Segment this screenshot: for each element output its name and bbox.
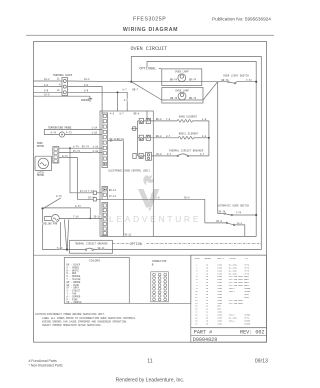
svg-text:7-74: 7-74 (246, 79, 252, 82)
relay bus vertical (137, 121, 139, 156)
svg-text:4-7: 4-7 (200, 153, 205, 156)
node broil tap (208, 137, 210, 139)
svg-text:BROIL ELEMENT: BROIL ELEMENT (179, 132, 199, 135)
svg-text:OVEN LIGHT SWITCH: OVEN LIGHT SWITCH (223, 74, 249, 77)
fan branch drop (89, 208, 91, 219)
svg-text:4-6: 4-6 (110, 112, 115, 115)
cooling fan leads left (44, 217, 51, 221)
svg-text:4-6: 4-6 (124, 99, 129, 102)
element return bus (208, 121, 210, 156)
relay feed drop (146, 111, 148, 118)
wire switch drop to door switch (217, 82, 219, 214)
automatic door switch 1 (218, 213, 224, 215)
fan return pair (64, 220, 66, 250)
connector cell divider right (129, 255, 191, 303)
svg-text:BR-8: BR-8 (134, 112, 140, 115)
door lock connector strip (53, 147, 59, 163)
svg-text:30-14: 30-14 (98, 247, 106, 250)
svg-text:8-74: 8-74 (73, 146, 79, 149)
svg-text:09/13: 09/13 (255, 359, 268, 365)
wire N block to control (68, 87, 103, 113)
oven lamp 1 box (162, 69, 202, 86)
svg-text:COLOR: COLOR (230, 257, 237, 260)
connector strip P2 body (102, 187, 108, 200)
svg-text:WIRING DIAGRAM: WIRING DIAGRAM (123, 27, 178, 33)
svg-text:9-74: 9-74 (51, 132, 57, 135)
door motor M1 box (35, 156, 52, 170)
node breaker junction (66, 249, 68, 251)
node switch to bus (255, 81, 257, 83)
svg-text:5-BK: 5-BK (57, 247, 63, 250)
node L1 junction (130, 81, 132, 83)
inline connector on latch wire 2 (93, 198, 96, 201)
svg-text:GY-74: GY-74 (80, 190, 88, 193)
svg-text:1-14: 1-14 (92, 127, 98, 130)
wire run table header (195, 257, 249, 260)
svg-text:1-8: 1-8 (202, 118, 207, 121)
svg-text:OVEN CIRCUIT: OVEN CIRCUIT (131, 46, 168, 52)
internal drop wire (122, 141, 124, 237)
svg-text:COOLING FAN: COOLING FAN (42, 222, 58, 225)
svg-text:OVEN LAMP: OVEN LAMP (175, 89, 189, 92)
svg-text:7-14: 7-14 (73, 216, 79, 219)
svg-text:9-74: 9-74 (56, 195, 62, 198)
svg-text:10-2: 10-2 (84, 78, 90, 81)
svg-text:1-18: 1-18 (92, 132, 98, 135)
svg-text:GY-14: GY-14 (109, 195, 117, 198)
svg-text:30-8: 30-8 (156, 153, 162, 156)
svg-text:7-74: 7-74 (236, 212, 242, 215)
svg-text:8-7: 8-7 (167, 153, 172, 156)
bottom return wire (153, 235, 256, 237)
control output wire to door switch (108, 199, 205, 223)
bottom breaker wire (43, 249, 86, 251)
svg-text:ELECTRONIC OVEN CONTROL (EOC): ELECTRONIC OVEN CONTROL (EOC) (109, 170, 151, 173)
thermal circuit breaker CB1 (177, 155, 179, 157)
svg-text:BU-18: BU-18 (117, 138, 125, 141)
wire table box (191, 255, 267, 328)
svg-text:BR-7: BR-7 (133, 89, 139, 92)
node fan branch (89, 218, 91, 220)
colors legend entries (67, 264, 83, 305)
inline connector on latch wire 1 (93, 191, 96, 194)
svg-text:GY-8: GY-8 (154, 197, 160, 200)
svg-text:COLORS: COLORS (89, 258, 100, 262)
svg-text:OPTIONAL: OPTIONAL (139, 68, 156, 72)
connector strip pins (103, 114, 106, 235)
door lock wire 2 (59, 152, 102, 154)
svg-text:SEW-1: SEW-1 (229, 290, 236, 293)
svg-text:SEW-1: SEW-1 (229, 319, 236, 322)
door latch wire down (70, 148, 102, 193)
svg-text:PR - PURPLE: PR - PURPLE (67, 301, 83, 304)
svg-text:CAUTION:DISCONNECT POWER BEFOR: CAUTION:DISCONNECT POWER BEFORE SERVICIN… (35, 313, 106, 316)
svg-text:THERMAL CIRCUIT BREAKER: THERMAL CIRCUIT BREAKER (169, 150, 204, 153)
legend band top rule (34, 254, 267, 256)
svg-text:* Non-Illustrated Parts: * Non-Illustrated Parts (29, 363, 63, 367)
oven light switch lead (218, 81, 228, 83)
svg-text:BR-74: BR-74 (170, 79, 178, 82)
svg-text:WIRE: WIRE (195, 257, 201, 260)
breaker wire to right bus (113, 249, 262, 251)
node L2 branch junction (117, 91, 119, 93)
wire L1 from border to terminal block (34, 80, 63, 82)
wire run table rows (195, 263, 251, 325)
connector strip P1 body (102, 113, 108, 168)
electronic oven control box U1 (100, 111, 153, 236)
svg-text:OPTION: OPTION (130, 243, 142, 247)
wire lamp2 to switch diagonal (203, 82, 218, 100)
door lock wire 1 (59, 147, 102, 149)
svg-text:D0004828: D0004828 (193, 337, 217, 343)
terminal block body (62, 78, 68, 96)
bake relay K1 (138, 120, 140, 122)
svg-text:BY-74: BY-74 (82, 146, 90, 149)
svg-text:GY-74: GY-74 (73, 150, 81, 153)
svg-text:8-7: 8-7 (166, 135, 171, 138)
fan left return wire (60, 222, 62, 250)
connector strip P3 body (102, 203, 108, 236)
wire N from border to terminal block (34, 86, 63, 88)
svg-text:SR350: SR350 (244, 322, 251, 325)
broil element wire (150, 137, 178, 139)
svg-text:P-73: P-73 (66, 132, 72, 135)
oven circuit inner top wire (147, 62, 256, 237)
bake element R1 coil (177, 120, 192, 123)
internal bus wire (108, 140, 124, 142)
svg-text:FFES3025P: FFES3025P (133, 16, 166, 22)
wire L1 block to node (68, 80, 132, 83)
terminal block contacts (63, 80, 66, 83)
svg-text:30-14: 30-14 (94, 216, 102, 219)
svg-text:9-W: 9-W (84, 84, 89, 87)
svg-text:LEADVENTURE: LEADVENTURE (109, 214, 201, 224)
part number box (191, 328, 267, 343)
svg-text:11: 11 (147, 359, 153, 365)
svg-text:MOTOR: MOTOR (37, 145, 45, 148)
svg-text:10-G: 10-G (44, 93, 50, 96)
node internal bus (110, 140, 112, 142)
svg-text:# Functional Parts: # Functional Parts (29, 359, 57, 363)
node door switch bus (255, 214, 257, 216)
svg-text:AUTOMATIC DOOR SWITCH: AUTOMATIC DOOR SWITCH (218, 205, 250, 208)
breaker symbol inside box (85, 249, 87, 251)
svg-text:BR-74: BR-74 (170, 97, 178, 100)
oven lamp 1 bulb (178, 74, 186, 82)
svg-text:30-74: 30-74 (218, 211, 226, 214)
automatic door switch 2 (205, 222, 226, 224)
svg-text:THERMAL CIRCUIT BREAKER: THERMAL CIRCUIT BREAKER (75, 243, 109, 246)
cooling fan output wire (59, 217, 102, 219)
svg-text:GAUGE: GAUGE (205, 257, 212, 260)
svg-text:CONNECTOR: CONNECTOR (152, 260, 167, 263)
colors legend box (64, 258, 129, 304)
svg-text:TEMPERATURE PROBE: TEMPERATURE PROBE (48, 126, 72, 129)
svg-text:LABEL ALL WIRES PRIOR TO DISCO: LABEL ALL WIRES PRIOR TO DISCONNECTION W… (42, 317, 137, 320)
svg-text:OVEN LAMP: OVEN LAMP (175, 71, 189, 74)
svg-text:8-R: 8-R (84, 90, 89, 93)
svg-text:TERMINAL BLOCK: TERMINAL BLOCK (53, 74, 73, 77)
oven lamp 2 wire (162, 99, 203, 101)
svg-text:2-18: 2-18 (93, 150, 99, 153)
svg-text:10-2: 10-2 (44, 78, 50, 81)
cooling fan motor M2 (52, 215, 60, 223)
door motor M1 (38, 158, 48, 168)
svg-text:BR-74: BR-74 (222, 79, 230, 82)
wire drop to breaker line (42, 208, 44, 249)
svg-text:TEMP C: TEMP C (217, 257, 225, 260)
temperature probe RT1 (59, 132, 64, 137)
svg-text:BR-74: BR-74 (189, 97, 197, 100)
watermark logo (138, 175, 159, 212)
part number box divider (191, 335, 267, 337)
option boundary dash-dot (113, 243, 129, 245)
internal relay K4 (133, 127, 136, 131)
oven light switch (228, 81, 230, 83)
broil relay K2 (138, 137, 140, 139)
thermal circuit breaker CB2 (85, 249, 87, 251)
door latch wire down 2 (59, 158, 102, 200)
broil element R2 coil (178, 136, 193, 139)
temperature probe loop (44, 129, 102, 134)
oven lamp 1 wire (131, 81, 217, 83)
oven circuit outer loop wire L1 (131, 57, 261, 250)
svg-text:MOTOR: MOTOR (37, 174, 45, 177)
ground wire (34, 95, 91, 97)
svg-text:CXL-150 BRDT: CXL-150 BRDT (229, 302, 244, 305)
connector B pin grid (151, 272, 169, 302)
relay K3 group (133, 153, 136, 158)
svg-text:BK-8: BK-8 (156, 118, 162, 121)
svg-text:7-8: 7-8 (166, 118, 171, 121)
svg-text:1-18: 1-18 (93, 146, 99, 149)
node door wire (69, 147, 71, 149)
cooling fan top wire (43, 207, 91, 209)
svg-text:BY-8: BY-8 (217, 220, 223, 223)
internal node link (131, 128, 137, 130)
svg-text:9-W: 9-W (44, 84, 49, 87)
svg-text:BU-18: BU-18 (110, 138, 118, 141)
svg-text:200C: 200C (217, 322, 223, 325)
wire L2 from border to terminal block (34, 91, 63, 93)
svg-text:8-7: 8-7 (120, 112, 125, 115)
caution note (35, 313, 137, 327)
svg-text:BAKE ELEMENT: BAKE ELEMENT (179, 115, 198, 118)
optional callout line (159, 67, 161, 69)
svg-text:PART #: PART # (194, 330, 212, 336)
svg-text:8-7: 8-7 (123, 89, 128, 92)
bake element wire (150, 120, 177, 122)
svg-text:2-8: 2-8 (202, 135, 207, 138)
thermal circuit breaker box (70, 240, 113, 253)
wire L2 block to control (68, 92, 128, 111)
thermal breaker wire upper (151, 155, 177, 157)
svg-text:SEW2: SEW2 (244, 296, 250, 299)
svg-text:30-8: 30-8 (184, 197, 190, 200)
wire L2 branch drop (117, 92, 119, 111)
svg-text:BU-8: BU-8 (156, 135, 162, 138)
svg-text:30-21: 30-21 (124, 233, 132, 236)
oven lamp 2 box (162, 88, 203, 104)
wire node to lamp2 diagonal (131, 82, 162, 100)
svg-text:8-R: 8-R (44, 90, 49, 93)
header rule (26, 34, 274, 36)
svg-text:W-74: W-74 (62, 155, 68, 158)
svg-text:GROUND: GROUND (81, 99, 90, 102)
svg-text:BU-14: BU-14 (109, 189, 117, 192)
svg-text:VERIFY PROPER OPERATION AFTER: VERIFY PROPER OPERATION AFTER SERVICING. (42, 324, 102, 327)
svg-text:REV: 002: REV: 002 (240, 330, 264, 336)
svg-text:Publication No: 5995636924: Publication No: 5995636924 (212, 16, 271, 21)
node fan feed (41, 207, 43, 209)
main border (34, 42, 267, 343)
svg-text:30-8: 30-8 (237, 222, 243, 225)
svg-text:Rendered by Leadventure, Inc.: Rendered by Leadventure, Inc. (116, 378, 185, 384)
ground symbol (88, 96, 93, 101)
oven lamp 2 bulb (178, 92, 186, 100)
cooling fan feed diagonal (43, 198, 61, 209)
svg-text:BR-74: BR-74 (189, 79, 197, 82)
svg-text:WIRING ERRORS CAN CAUSE IMPROP: WIRING ERRORS CAN CAUSE IMPROPER AND DAN… (42, 320, 128, 323)
svg-text:8-74: 8-74 (75, 205, 81, 208)
